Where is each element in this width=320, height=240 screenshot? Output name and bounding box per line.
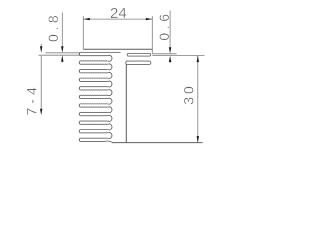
svg-text:24: 24 [110,5,127,22]
svg-text:0.6: 0.6 [156,10,172,40]
svg-text:0.8: 0.8 [45,12,61,42]
svg-text:7-4: 7-4 [24,83,40,115]
svg-text:30: 30 [181,83,197,105]
